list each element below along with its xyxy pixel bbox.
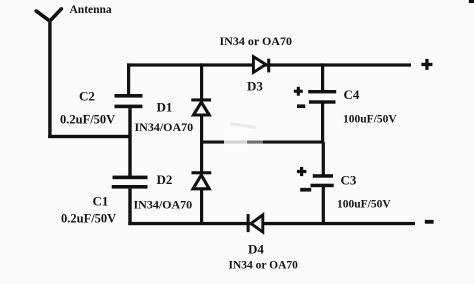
- capacitor C1: [112, 176, 148, 189]
- svg-text:C3: C3: [341, 173, 357, 188]
- capacitor C3: [311, 174, 334, 187]
- output terminal plus: [421, 59, 432, 70]
- wire C1 bottom lead: [128, 189, 131, 226]
- wire D2 bottom lead: [200, 189, 203, 224]
- wire C2 to C1: [128, 108, 131, 177]
- svg-text:0.2uF/50V: 0.2uF/50V: [60, 113, 115, 127]
- svg-text:D1: D1: [157, 100, 173, 115]
- wire middle rail: [200, 141, 324, 144]
- svg-text:IN34 or OA70: IN34 or OA70: [229, 260, 299, 272]
- wire D1 top lead: [200, 63, 203, 99]
- capacitor C2: [115, 94, 143, 108]
- wire antenna to C1/C2 junction: [48, 135, 130, 138]
- wire C4 to middle rail: [321, 104, 324, 144]
- svg-text:C1: C1: [93, 194, 109, 209]
- svg-text:D4: D4: [248, 242, 264, 257]
- antenna: [36, 9, 61, 21]
- svg-text:IN34 or OA70: IN34 or OA70: [220, 34, 292, 48]
- diode D4: [247, 214, 263, 232]
- diode D1: [191, 98, 211, 115]
- svg-text:Antenna: Antenna: [70, 4, 112, 16]
- wire middle rail to D2: [200, 142, 203, 172]
- wire bottom rail: [128, 222, 415, 225]
- svg-text:D2: D2: [157, 172, 173, 187]
- wire C3 bottom lead: [322, 187, 325, 225]
- wire D1 to middle rail: [200, 115, 203, 143]
- svg-text:0.2uF/50V: 0.2uF/50V: [61, 212, 116, 226]
- svg-text:100uF/50V: 100uF/50V: [337, 199, 391, 211]
- C4 polarity plus: [294, 87, 303, 96]
- capacitor C4: [308, 90, 336, 104]
- svg-text:C2: C2: [79, 89, 95, 104]
- faint smudge above middle rail: [230, 122, 256, 129]
- svg-text:IN34/OA70: IN34/OA70: [134, 198, 193, 212]
- wire C4 top lead: [321, 63, 324, 91]
- wire C2 top lead: [127, 63, 130, 95]
- corner artifact top-right: [469, 0, 474, 3]
- diode D2: [192, 171, 212, 189]
- C3 polarity minus: [300, 188, 311, 192]
- wire top rail: [127, 63, 411, 66]
- wire middle rail to C3: [322, 142, 325, 175]
- C4 polarity minus: [297, 104, 305, 108]
- C3 polarity plus: [297, 167, 307, 176]
- output terminal minus: [425, 220, 434, 224]
- diode D3: [253, 57, 270, 73]
- wire antenna down lead: [48, 19, 51, 138]
- svg-text:100uF/50V: 100uF/50V: [343, 114, 397, 126]
- svg-text:C4: C4: [344, 87, 360, 102]
- svg-text:IN34/OA70: IN34/OA70: [135, 120, 194, 134]
- svg-text:D3: D3: [247, 79, 263, 94]
- watermark smudge over middle rail: [224, 128, 247, 150]
